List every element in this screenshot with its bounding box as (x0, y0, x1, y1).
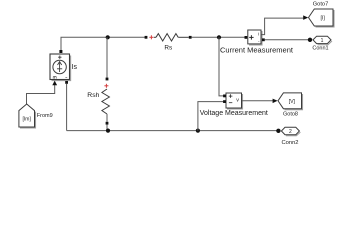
Current Measurement block U1 (245, 30, 265, 45)
wire CM minus to Conn1 (265, 39, 308, 41)
port Conn2 (281, 127, 300, 136)
svg-text:[I]: [I] (321, 16, 326, 22)
node junction VM minus to bottom rail (196, 129, 200, 133)
Goto8 block (278, 93, 303, 110)
wire junction down to VM plus (219, 37, 224, 96)
wire VM minus from bottom rail (198, 102, 224, 131)
wire from From9 to Is signal input (27, 85, 55, 104)
node junction to VM plus (217, 35, 221, 39)
node junction Rsh to bottom rail (106, 129, 110, 133)
svg-text:From9: From9 (37, 113, 53, 119)
red polarity + (104, 84, 108, 88)
pin 1 port square (top) (59, 50, 62, 53)
wire Is minus terminal to bottom rail (65, 81, 68, 84)
current source Is (50, 50, 71, 81)
svg-text:Voltage Measurement: Voltage Measurement (200, 110, 268, 117)
wire Rs to Current Measurement (192, 36, 245, 38)
svg-text:Goto8: Goto8 (283, 112, 298, 118)
arrowhead into Is bottom-left port (52, 81, 57, 86)
arrow icon inside circle (57, 62, 62, 72)
wire Rsh drop (106, 37, 108, 78)
wire VM output to Goto8 (242, 100, 273, 102)
svg-text:Is: Is (72, 64, 78, 71)
svg-text:Rsh: Rsh (87, 92, 99, 99)
svg-text:[V]: [V] (289, 99, 296, 105)
node dot at Conn2 (276, 129, 280, 133)
Goto7 block (309, 9, 335, 27)
tiny port labels m and - (53, 76, 67, 78)
resistor Rsh (vertical) (102, 78, 110, 131)
svg-text:2: 2 (289, 129, 292, 135)
svg-text:i: i (258, 31, 259, 36)
svg-text:Goto7: Goto7 (313, 2, 329, 8)
red polarity + (149, 35, 153, 39)
bottom rail (67, 130, 277, 132)
node junction top rail to Rsh (106, 35, 110, 39)
svg-text:Conn1: Conn1 (312, 46, 328, 52)
port Conn1 (313, 36, 332, 45)
svg-text:[Im]: [Im] (23, 116, 32, 122)
svg-text:v: v (236, 98, 239, 104)
svg-text:Conn2: Conn2 (281, 140, 298, 146)
svg-text:Current Measurement: Current Measurement (220, 46, 294, 55)
node dot at Conn1 (308, 38, 312, 42)
wire top rail from Is to Rs (61, 37, 145, 51)
svg-text:Rs: Rs (164, 44, 172, 51)
Voltage Measurement block U2 (223, 93, 242, 109)
resistor Rs (horizontal) (145, 34, 192, 41)
svg-text:1: 1 (321, 38, 324, 44)
shadow (52, 56, 71, 81)
wire CM i output to Goto7 (261, 18, 303, 34)
From9 block (19, 104, 36, 128)
